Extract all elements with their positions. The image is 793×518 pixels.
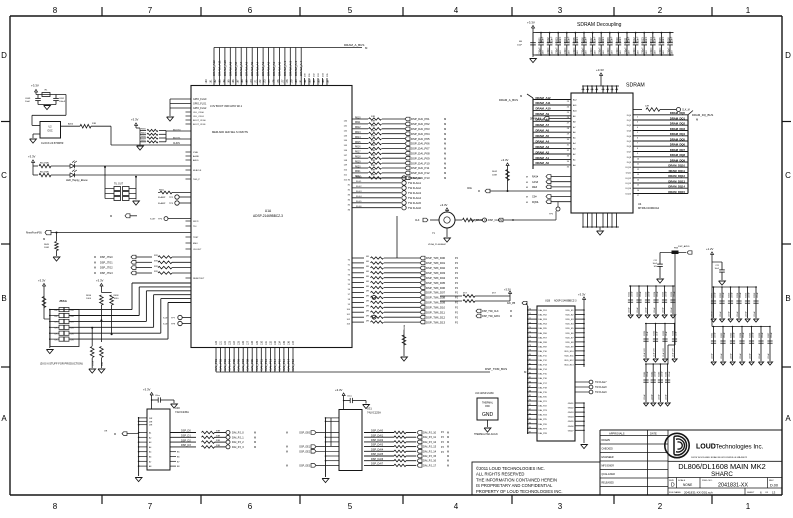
svg-text:DRAM_A6: DRAM_A6: [245, 61, 249, 76]
svg-text:DRAM_A6: DRAM_A6: [536, 129, 550, 133]
svg-text:NONE: NONE: [683, 483, 692, 487]
svg-text:DRAM_A1: DRAM_A1: [536, 156, 550, 160]
svg-text:171: 171: [255, 79, 258, 84]
svg-text:VDD_E8: VDD_E8: [565, 342, 574, 344]
svg-text:DAI_P09: DAI_P09: [250, 359, 254, 371]
svg-text:D: D: [785, 51, 791, 60]
svg-text:100nF: 100nF: [593, 36, 596, 43]
svg-text:M: M: [286, 433, 288, 435]
svg-text:2: 2: [658, 6, 663, 15]
svg-text:FLG5: FLG5: [356, 201, 362, 203]
svg-text:GND1: GND1: [568, 403, 575, 405]
svg-text:84: 84: [529, 372, 531, 374]
svg-text:79: 79: [529, 350, 531, 352]
svg-text:100nF: 100nF: [734, 332, 736, 338]
svg-text:S_BT: S_BT: [163, 318, 169, 320]
svg-text:100nF: 100nF: [663, 307, 665, 313]
svg-text:DAI_PJ_14: DAI_PJ_14: [423, 449, 437, 453]
svg-text:33R: 33R: [154, 266, 158, 268]
svg-text:THD_P: THD_P: [193, 179, 200, 181]
svg-text:13: 13: [637, 174, 639, 176]
svg-text:DRAM_DQ7: DRAM_DQ7: [670, 148, 686, 152]
svg-text:R619: R619: [355, 161, 361, 163]
svg-text:+3.3V: +3.3V: [335, 388, 343, 392]
svg-text:33R: 33R: [371, 175, 375, 177]
svg-text:100nF: 100nF: [768, 353, 770, 359]
svg-text:100nF: 100nF: [556, 47, 559, 54]
svg-text:M: M: [447, 455, 449, 458]
svg-text:33R: 33R: [216, 435, 220, 437]
svg-text:2041831-XX: 2041831-XX: [718, 482, 748, 488]
svg-text:0R: 0R: [366, 256, 369, 258]
svg-text:12: 12: [637, 169, 639, 171]
svg-text:DRAM_DQ15: DRAM_DQ15: [668, 190, 685, 194]
svg-text:DSP_DAI_P07: DSP_DAI_P07: [411, 147, 430, 151]
svg-text:100nF: 100nF: [712, 353, 714, 359]
svg-text:130: 130: [260, 340, 263, 345]
svg-text:D: D: [1, 51, 7, 60]
svg-text:CLK_M: CLK_M: [682, 110, 690, 112]
svg-text:DSP_DAI_P01: DSP_DAI_P01: [411, 117, 430, 121]
svg-text:DAI_P08: DAI_P08: [246, 359, 250, 371]
svg-text:170: 170: [250, 79, 253, 84]
svg-text:MT48LC16M16A2: MT48LC16M16A2: [638, 206, 660, 210]
svg-text:33R: 33R: [216, 445, 220, 447]
svg-text:100nF: 100nF: [743, 332, 745, 338]
svg-text:33R: 33R: [371, 150, 375, 152]
svg-text:C642: C642: [651, 371, 653, 377]
svg-text:0R: 0R: [366, 291, 369, 293]
svg-text:DRAM_A8: DRAM_A8: [234, 61, 238, 76]
svg-text:GPIO_FLG1: GPIO_FLG1: [193, 103, 207, 106]
svg-text:DAI_P03: DAI_P03: [539, 318, 548, 321]
svg-text:DRAM_A10: DRAM_A10: [223, 60, 227, 76]
svg-text:100nF: 100nF: [547, 47, 550, 54]
svg-text:100nF: 100nF: [616, 47, 619, 54]
svg-text:DAI_P05: DAI_P05: [539, 327, 548, 330]
svg-text:DAI_PJ_11: DAI_PJ_11: [423, 435, 436, 439]
svg-text:72: 72: [529, 318, 531, 320]
svg-text:0R: 0R: [366, 315, 369, 317]
svg-text:16V: 16V: [620, 50, 622, 54]
svg-text:DRAM_BA: DRAM_BA: [530, 118, 542, 121]
svg-text:0R: 0R: [366, 271, 369, 273]
svg-text:M: M: [254, 441, 256, 444]
svg-text:R620: R620: [355, 166, 361, 168]
svg-text:16V: 16V: [646, 50, 648, 54]
svg-text:16V: 16V: [663, 50, 665, 54]
svg-text:MFG ENGR: MFG ENGR: [602, 466, 615, 468]
svg-text:100nF: 100nF: [654, 371, 656, 377]
svg-text:C644: C644: [666, 371, 668, 377]
svg-text:R616: R616: [355, 147, 361, 149]
svg-text:100nF: 100nF: [724, 332, 726, 338]
svg-text:DRAM_DQ12: DRAM_DQ12: [668, 174, 685, 178]
svg-text:83: 83: [529, 368, 531, 370]
svg-text:M: M: [444, 161, 446, 165]
svg-text:74LVC245A: 74LVC245A: [175, 410, 189, 414]
svg-text:174: 174: [268, 79, 271, 84]
svg-text:10uF: 10uF: [652, 263, 657, 265]
svg-text:10: 10: [637, 158, 639, 160]
svg-text:DRAWN: DRAWN: [602, 439, 611, 442]
svg-text:AVDD: AVDD: [193, 159, 199, 162]
svg-text:DRAM_A9: DRAM_A9: [228, 61, 232, 76]
svg-text:93: 93: [529, 413, 531, 415]
svg-text:100nF: 100nF: [715, 292, 717, 298]
svg-text:DRAM_A3: DRAM_A3: [261, 61, 265, 76]
svg-text:A8: A8: [149, 465, 151, 468]
svg-text:136: 136: [288, 340, 291, 345]
svg-text:3: 3: [637, 122, 638, 124]
svg-text:2041831-XX-D01.sch: 2041831-XX-D01.sch: [684, 491, 713, 495]
svg-text:ADSP-21469BBCZ-3: ADSP-21469BBCZ-3: [253, 214, 283, 218]
svg-text:R615: R615: [355, 142, 361, 144]
svg-text:DAI_P25: DAI_P25: [539, 418, 548, 421]
svg-text:33R: 33R: [371, 121, 375, 123]
svg-text:DRAM_DQ_BUS: DRAM_DQ_BUS: [692, 113, 713, 117]
svg-text:16V: 16V: [629, 50, 631, 54]
svg-text:U1C ADSP-21469: U1C ADSP-21469: [475, 392, 494, 395]
svg-text:8: 8: [637, 148, 638, 150]
svg-text:5: 5: [348, 6, 353, 15]
svg-text:2: 2: [637, 116, 638, 118]
svg-text:100nF: 100nF: [611, 36, 614, 43]
svg-text:133: 133: [274, 340, 277, 345]
svg-text:M: M: [444, 117, 446, 121]
svg-text:DRAM_A-1: DRAM_A-1: [283, 60, 287, 76]
svg-text:DRAM_DQ4: DRAM_DQ4: [670, 132, 686, 136]
svg-text:16: 16: [637, 190, 639, 192]
svg-text:C621: C621: [629, 291, 631, 297]
svg-text:WDTI: WDTI: [193, 221, 199, 223]
svg-text:C653: C653: [729, 292, 731, 298]
svg-text:GND7: GND7: [568, 430, 575, 432]
svg-text:33R: 33R: [216, 440, 220, 442]
svg-text:DRAM_A12: DRAM_A12: [536, 96, 552, 100]
svg-text:DQML: DQML: [532, 202, 539, 204]
svg-text:DAI_PB: DAI_PB: [507, 302, 516, 305]
svg-text:DAI_P07: DAI_P07: [241, 359, 245, 371]
svg-text:CLOCK 24.576MHZ: CLOCK 24.576MHZ: [41, 142, 64, 145]
svg-text:DSP_TWI_D07: DSP_TWI_D07: [426, 291, 446, 295]
svg-text:100nF: 100nF: [754, 311, 756, 317]
svg-text:33R: 33R: [371, 140, 375, 142]
svg-text:VDD_E1: VDD_E1: [565, 310, 574, 312]
svg-text:DAI_P16: DAI_P16: [539, 377, 548, 380]
svg-text:DQ14: DQ14: [626, 188, 632, 190]
svg-text:90: 90: [529, 400, 531, 402]
svg-text:GND3: GND3: [568, 412, 575, 414]
svg-text:DRAM_A_BUS: DRAM_A_BUS: [344, 43, 364, 47]
svg-text:100nF: 100nF: [542, 36, 545, 43]
svg-text:DRAM_A7: DRAM_A7: [239, 61, 243, 76]
svg-text:122: 122: [224, 340, 227, 345]
svg-text:33R: 33R: [371, 165, 375, 167]
svg-text:100nF: 100nF: [599, 47, 602, 54]
svg-text:10uF: 10uF: [517, 45, 523, 47]
svg-text:C661: C661: [712, 332, 714, 338]
svg-text:100nF: 100nF: [654, 307, 656, 313]
svg-text:M: M: [444, 147, 446, 151]
svg-text:FLG2: FLG2: [356, 186, 362, 188]
svg-text:33R: 33R: [92, 123, 96, 125]
svg-text:PAD: PAD: [485, 405, 490, 408]
svg-text:M: M: [510, 316, 512, 318]
svg-text:M: M: [447, 446, 449, 449]
svg-text:DRAM_DQ14: DRAM_DQ14: [668, 185, 685, 189]
svg-text:DSP_DAI4: DSP_DAI4: [371, 448, 384, 451]
svg-text:DSP_D3: DSP_D3: [181, 444, 191, 447]
svg-text:SDRAM: SDRAM: [626, 83, 645, 89]
svg-text:91: 91: [529, 404, 531, 406]
svg-text:DAI_P11: DAI_P11: [539, 355, 548, 358]
svg-text:94: 94: [529, 418, 531, 420]
svg-text:AGND: AGND: [193, 155, 200, 158]
svg-text:96: 96: [529, 427, 531, 429]
svg-text:100nF: 100nF: [645, 36, 648, 43]
svg-text:100nF: 100nF: [666, 291, 668, 297]
svg-text:33R: 33R: [371, 126, 375, 128]
svg-text:C641: C641: [644, 371, 646, 377]
svg-text:DAI_PJ_13: DAI_PJ_13: [423, 445, 437, 449]
svg-text:D.00: D.00: [770, 483, 778, 487]
svg-text:169: 169: [246, 79, 249, 84]
svg-text:DAI_P26: DAI_P26: [539, 423, 548, 426]
svg-text:129: 129: [256, 340, 259, 345]
svg-text:M: M: [43, 237, 45, 241]
svg-text:M: M: [696, 118, 698, 122]
svg-text:0R: 0R: [366, 276, 369, 278]
svg-text:88: 88: [529, 391, 531, 393]
svg-text:75: 75: [529, 331, 531, 333]
svg-text:VDD_E3: VDD_E3: [565, 319, 574, 321]
svg-text:DAI_P12: DAI_P12: [539, 359, 548, 362]
svg-text:CAS#: CAS#: [532, 181, 539, 184]
svg-text:100nF: 100nF: [576, 36, 579, 43]
svg-text:DRAM_A11: DRAM_A11: [536, 101, 551, 105]
svg-text:IS PROPRIETARY AND CONFIDENTIA: IS PROPRIETARY AND CONFIDENTIAL: [476, 483, 553, 488]
svg-text:DAI_P14: DAI_P14: [273, 359, 277, 371]
svg-text:DAI_P18: DAI_P18: [291, 359, 295, 371]
svg-text:+3.3V: +3.3V: [596, 68, 604, 72]
svg-text:C649: C649: [25, 98, 31, 100]
svg-text:+3.3V: +3.3V: [578, 293, 586, 297]
svg-text:74: 74: [529, 327, 531, 329]
svg-text:100nF: 100nF: [573, 47, 576, 54]
svg-text:100nF: 100nF: [715, 332, 717, 338]
svg-text:DSP_DAI1: DSP_DAI1: [371, 434, 384, 437]
svg-text:100nF: 100nF: [59, 101, 66, 103]
svg-text:DRAM_DQ11: DRAM_DQ11: [669, 169, 686, 173]
svg-text:GND2: GND2: [568, 408, 575, 410]
svg-text:M: M: [444, 127, 446, 131]
svg-text:C665: C665: [750, 332, 752, 338]
svg-text:0R: 0R: [366, 281, 369, 283]
svg-text:100nF: 100nF: [732, 292, 734, 298]
svg-text:+3.3V: +3.3V: [38, 279, 46, 283]
svg-text:DAI_P04: DAI_P04: [228, 359, 232, 371]
svg-text:TDO: TDO: [70, 310, 75, 312]
svg-text:GPIO_FLG2: GPIO_FLG2: [193, 107, 207, 110]
svg-text:100nF: 100nF: [619, 36, 622, 43]
svg-text:FLG3: FLG3: [356, 191, 362, 193]
svg-text:M: M: [526, 202, 528, 204]
svg-text:M: M: [447, 450, 449, 453]
svg-text:10K0: 10K0: [114, 298, 120, 300]
svg-text:Technologies Inc.: Technologies Inc.: [716, 443, 764, 450]
svg-text:TW FLAG8: TW FLAG8: [595, 386, 607, 389]
svg-text:R6 470R: R6 470R: [40, 171, 49, 173]
svg-text:PROPERTY OF LOUD TECHNOLOGIES: PROPERTY OF LOUD TECHNOLOGIES INC.: [476, 489, 563, 494]
svg-text:M: M: [447, 460, 449, 463]
svg-text:C: C: [785, 171, 791, 180]
svg-text:0R: 0R: [366, 261, 369, 263]
svg-text:C663: C663: [731, 332, 733, 338]
svg-text:M: M: [447, 436, 449, 439]
svg-text:16V: 16V: [543, 50, 545, 54]
svg-text:DSP_DAI6: DSP_DAI6: [371, 458, 384, 461]
svg-text:M: M: [444, 132, 446, 136]
svg-text:TW FLAG4: TW FLAG4: [408, 196, 422, 200]
svg-text:6: 6: [248, 502, 253, 511]
svg-text:187: 187: [327, 79, 330, 84]
svg-text:DSP_JTG3: DSP_JTG3: [100, 272, 113, 275]
svg-text:179: 179: [291, 79, 294, 84]
svg-text:DRAM_DQ5: DRAM_DQ5: [670, 137, 686, 141]
svg-text:16V: 16V: [551, 50, 553, 54]
svg-text:100nF: 100nF: [759, 353, 761, 359]
svg-text:DAI_P01: DAI_P01: [539, 309, 548, 312]
svg-text:DRAM_A5: DRAM_A5: [536, 134, 550, 138]
svg-text:16220 WOOD-RED ROAD NE WOODINV: 16220 WOOD-RED ROAD NE WOODINVILLE WA 98…: [691, 456, 748, 459]
svg-text:DAI_P15: DAI_P15: [277, 359, 281, 371]
svg-text:DSP_JTG0: DSP_JTG0: [100, 256, 113, 259]
svg-text:128: 128: [251, 340, 254, 345]
svg-text:10uF: 10uF: [25, 101, 31, 103]
svg-text:100nF: 100nF: [749, 292, 751, 298]
svg-text:DRAM_DQ10: DRAM_DQ10: [668, 164, 685, 168]
svg-text:8: 8: [53, 502, 58, 511]
svg-text:U30: U30: [175, 406, 180, 410]
svg-text:DAI_P28: DAI_P28: [539, 432, 548, 435]
svg-text:+3.3V: +3.3V: [28, 155, 36, 159]
svg-text:C623: C623: [646, 291, 648, 297]
svg-text:DSP_DAI0: DSP_DAI0: [371, 430, 384, 433]
svg-text:S_BT: S_BT: [163, 324, 169, 326]
svg-text:87: 87: [529, 386, 531, 388]
svg-text:FLG4: FLG4: [356, 196, 362, 198]
svg-text:XTAL: XTAL: [193, 151, 199, 154]
svg-text:163: 163: [219, 79, 222, 84]
svg-text:33R: 33R: [154, 271, 158, 273]
svg-text:DAI_PJ_1: DAI_PJ_1: [232, 435, 244, 439]
svg-text:10uF 16V: 10uF 16V: [654, 348, 656, 357]
svg-text:16V: 16V: [612, 50, 614, 54]
svg-text:0R: 0R: [366, 301, 369, 303]
svg-text:135: 135: [283, 340, 286, 345]
svg-text:33R: 33R: [154, 255, 158, 257]
svg-text:TW FLAG0: TW FLAG0: [408, 176, 422, 180]
svg-text:DRAM_A1: DRAM_A1: [272, 61, 276, 76]
svg-text:DSP_OE0: DSP_OE0: [299, 433, 310, 435]
svg-text:100nF: 100nF: [651, 394, 653, 400]
svg-text:+3.3V: +3.3V: [31, 84, 39, 88]
svg-text:33R: 33R: [102, 362, 104, 366]
svg-text:33R: 33R: [371, 135, 375, 137]
svg-text:DAI_P15: DAI_P15: [539, 373, 548, 376]
svg-text:DQ13: DQ13: [626, 183, 632, 185]
svg-text:R621: R621: [355, 171, 361, 173]
svg-text:178: 178: [286, 79, 289, 84]
svg-text:+3.3V: +3.3V: [131, 118, 139, 122]
svg-text:92: 92: [529, 409, 531, 411]
svg-text:100nF: 100nF: [550, 36, 553, 43]
svg-text:100nF: 100nF: [646, 307, 648, 313]
svg-text:0R: 0R: [366, 266, 369, 268]
svg-text:DSP_TWI_D12: DSP_TWI_D12: [426, 315, 446, 319]
svg-text:160: 160: [205, 79, 208, 84]
svg-text:A7: A7: [149, 460, 151, 463]
svg-text:184: 184: [313, 79, 316, 84]
svg-text:DQ11: DQ11: [626, 173, 632, 175]
svg-text:DSP_TWI_D01: DSP_TWI_D01: [426, 261, 446, 265]
svg-text:DSP_TWI_DATA: DSP_TWI_DATA: [482, 315, 500, 318]
svg-text:DSP_DAI_P11: DSP_DAI_P11: [411, 166, 430, 170]
svg-text:78: 78: [529, 345, 531, 347]
svg-text:10uF: 10uF: [676, 331, 678, 336]
svg-text:2: 2: [658, 502, 663, 511]
svg-text:C643: C643: [659, 371, 661, 377]
svg-text:100nF: 100nF: [628, 36, 631, 43]
svg-text:DRAM_A-4: DRAM_A-4: [299, 60, 303, 76]
svg-text:ADSP-21469BBCZ-3: ADSP-21469BBCZ-3: [554, 300, 577, 303]
svg-text:DAI_P19: DAI_P19: [539, 391, 548, 394]
svg-text:R610: R610: [355, 117, 361, 119]
svg-text:33R: 33R: [371, 145, 375, 147]
svg-text:GND6: GND6: [568, 426, 575, 428]
svg-text:DAI_P23: DAI_P23: [539, 409, 548, 412]
svg-text:100nF: 100nF: [559, 36, 562, 43]
svg-text:DAI_P01: DAI_P01: [214, 359, 218, 371]
svg-text:DSP_AVDD: DSP_AVDD: [678, 245, 690, 248]
svg-text:100nF: 100nF: [538, 47, 541, 54]
svg-text:175: 175: [273, 79, 276, 84]
svg-text:CLKOUT: CLKOUT: [193, 249, 202, 251]
svg-text:DSP_DAI_P04: DSP_DAI_P04: [411, 132, 430, 136]
svg-text:123: 123: [229, 340, 232, 345]
svg-text:DSP_DAI2: DSP_DAI2: [371, 439, 384, 442]
svg-text:R618: R618: [355, 157, 361, 159]
svg-text:C624: C624: [654, 291, 656, 297]
svg-text:DRAM_A-2: DRAM_A-2: [288, 60, 292, 76]
svg-text:TDO: TDO: [70, 328, 75, 330]
svg-text:6: 6: [248, 6, 253, 15]
svg-text:DQ15: DQ15: [626, 194, 632, 196]
svg-text:1: 1: [746, 6, 751, 15]
svg-text:R6 470R: R6 470R: [40, 162, 49, 164]
svg-text:DAI_P04: DAI_P04: [539, 323, 548, 326]
svg-text:DAI_PJ_17: DAI_PJ_17: [423, 463, 437, 467]
svg-text:CLKIN: CLKIN: [173, 143, 180, 145]
svg-text:BOOT_CFG0: BOOT_CFG0: [193, 120, 206, 122]
svg-text:120: 120: [215, 340, 218, 345]
svg-text:DSP_TWI_D06: DSP_TWI_D06: [426, 286, 446, 290]
svg-text:100nF: 100nF: [757, 292, 759, 298]
svg-text:R696: R696: [86, 295, 92, 297]
svg-text:100R: 100R: [44, 247, 49, 249]
svg-text:DSP_OE1: DSP_OE1: [299, 447, 310, 449]
